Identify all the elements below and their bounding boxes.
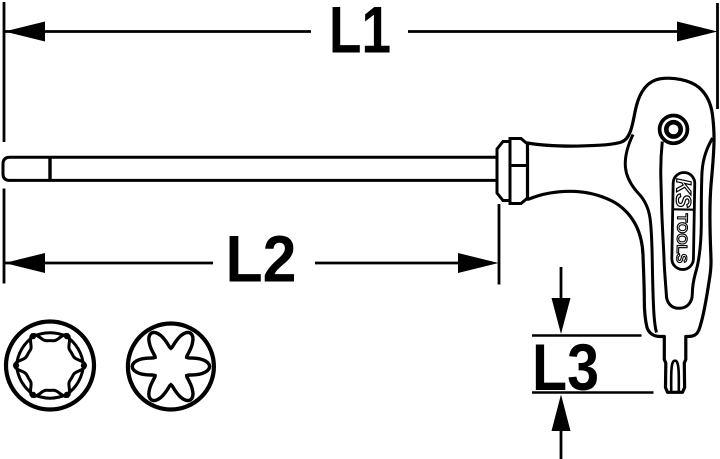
extension line right (L2)	[498, 204, 501, 285]
shaft	[3, 157, 497, 180]
shaft tip boundary line	[48, 157, 51, 180]
torx socket section (external profile)	[6, 322, 94, 410]
L3 down arrow	[560, 267, 563, 301]
L3 up arrow	[560, 428, 563, 459]
inner detail curve	[625, 135, 656, 333]
KS TOOLS badge	[670, 172, 695, 269]
handle ring outer	[660, 115, 688, 143]
soft-grip inner contour	[661, 138, 713, 308]
dimension L2 line	[5, 262, 213, 265]
arrowhead L2 left	[5, 253, 46, 273]
L3 tick upper	[532, 334, 642, 337]
extension line left (L1/L2)	[3, 2, 6, 142]
extension line right (L1)	[716, 3, 719, 109]
arrowhead L2 right	[458, 253, 499, 273]
svg-text:L1: L1	[329, 0, 391, 67]
extension line left lower (L2)	[3, 189, 6, 284]
dimension L1 line	[5, 30, 311, 33]
arrowhead L1 right	[677, 22, 718, 42]
torx bit section (star profile)	[128, 324, 214, 410]
collar body	[510, 139, 528, 204]
collar flange	[497, 142, 510, 201]
handle ring inner	[666, 122, 680, 136]
handle outline	[528, 78, 715, 392]
L3 tick lower	[532, 391, 654, 394]
svg-text:L2: L2	[226, 222, 297, 296]
svg-text:KS: KS	[671, 178, 695, 208]
torx tip flute arch	[671, 361, 679, 392]
svg-text:TOOLS: TOOLS	[673, 213, 690, 263]
collar mid line	[510, 164, 528, 167]
svg-text:L3: L3	[532, 330, 599, 404]
arrowhead L1 left	[5, 22, 46, 42]
